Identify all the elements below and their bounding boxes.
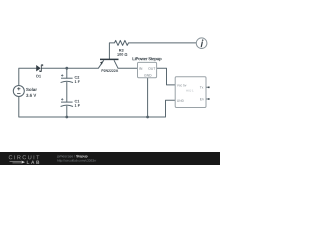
logo: CIRCUIT (9, 155, 40, 159)
pin label: GND (144, 74, 151, 76)
label: LiPower Stepup title (132, 57, 161, 61)
label: C2 value 1 F (75, 80, 80, 83)
label: C1 (75, 100, 80, 103)
pin terminal: En stub tip (208, 98, 210, 100)
pin label: IN (139, 67, 142, 69)
resistor R3 (115, 40, 129, 45)
wire: R3 to ammeter (129, 42, 197, 44)
wire: left rail top (source to top-left corner to diode anode) (19, 68, 37, 85)
node: junction dot LiPower GND on bottom rail (146, 116, 149, 119)
capacitor C1 (polarized) (61, 102, 73, 106)
node: junction dot C1 bottom rail (65, 116, 68, 119)
IC U2 radio module box (175, 77, 206, 108)
pin label: GND (177, 100, 184, 102)
label: module part number (186, 90, 193, 92)
wire: capacitor branch C2/C1 vertical (66, 68, 68, 117)
ammeter probe i (196, 38, 207, 49)
footer text: url (57, 159, 96, 162)
wire: module Tx pin stub (206, 86, 209, 88)
IC U1 LiPower Stepup box (138, 62, 157, 77)
pin label: En (200, 98, 203, 100)
wire: diode cathode to transistor emitter, through C2 junction (42, 67, 98, 69)
wire: source bottom to bottom rail (19, 97, 175, 118)
capacitor C2 (polarized) (61, 78, 73, 82)
label: R3 (119, 49, 123, 52)
wire: LiPower OUT step down to module Vcc pin (157, 68, 176, 85)
label: C2 (75, 76, 80, 79)
footer text: jamescase / Stepup (57, 155, 75, 158)
label: 3.6 V (26, 94, 36, 97)
wire: LiPower GND down to bottom rail (147, 78, 149, 117)
label: Solar (26, 88, 37, 91)
voltage source V1 Solar (13, 86, 24, 97)
label: D1 (36, 75, 41, 78)
label: R3 value 100 Ohm (117, 53, 127, 56)
pin terminal: Tx stub tip (208, 87, 210, 89)
wire: transistor collector to LiPower IN pin (118, 67, 138, 69)
footer: black CircuitLab bar (0, 152, 220, 165)
label: P2N2222A (102, 69, 119, 72)
pin label: OUT (148, 67, 155, 69)
node: junction dot diode/C2 rail (65, 67, 68, 70)
pin label: Tx (200, 86, 203, 88)
label: C2 plus (61, 74, 63, 76)
wire: transistor base up to R3 (109, 43, 114, 60)
label: C1 plus (61, 98, 63, 100)
label: C1 value 1 F (75, 104, 80, 107)
transistor Q1 P2N2222A (98, 59, 118, 68)
wire: module En pin stub (206, 98, 209, 100)
diode D1 (Schottky) (36, 65, 43, 72)
pin label: Vcc 5v (177, 84, 187, 86)
logo: LAB with arrow lines (10, 161, 40, 164)
